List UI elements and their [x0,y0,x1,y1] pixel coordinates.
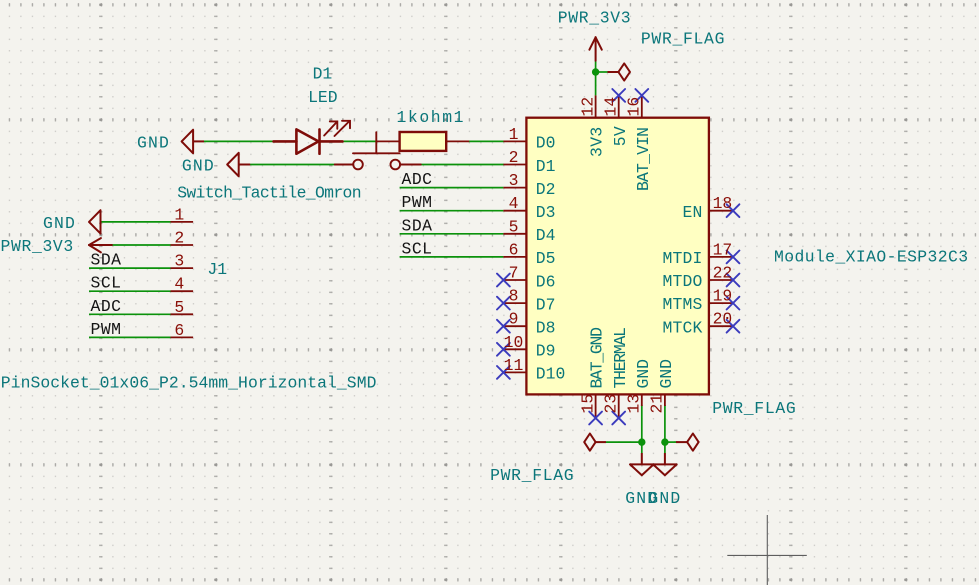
wire row2 GND->SW->pin2 (green segments) [250,164,503,166]
svg-text:3: 3 [509,171,519,190]
module pin names bottom (rotated) [588,328,676,389]
svg-text:BAT_VIN: BAT_VIN [634,128,653,191]
svg-text:LED: LED [308,88,338,107]
module pin names right [662,203,702,337]
wires J1 pins 1-6 (green) [89,222,171,338]
svg-text:SDA: SDA [91,251,122,270]
svg-text:17: 17 [713,240,733,259]
svg-text:1: 1 [509,125,519,144]
wire net PWM to pin4 [400,210,504,212]
svg-text:THERMAL: THERMAL [611,328,630,389]
svg-text:MTCK: MTCK [662,318,702,337]
svg-text:D4: D4 [536,226,556,245]
power flag PWR_FLAG (top) [608,63,631,80]
module pin numbers top (rotated) [578,97,643,117]
power symbol PWR_3V3 (top arrow up) [589,37,601,61]
svg-text:EN: EN [683,203,703,222]
svg-text:20: 20 [713,310,733,329]
svg-text:21: 21 [648,394,667,414]
no-connect X marks module top pins 14,16 [612,89,648,102]
svg-text:SDA: SDA [402,216,433,235]
power symbol PWR_3V3 (J1 pin2, left arrow) [89,238,112,252]
module pin numbers left 1-11 [504,125,524,375]
svg-text:5: 5 [509,217,519,236]
svg-text:PWM: PWM [402,193,433,212]
svg-text:SCL: SCL [402,239,433,258]
ground symbol GND (pin13 bottom) [630,453,654,475]
power flag PWR_FLAG (bottom left) [584,434,606,451]
svg-text:13: 13 [625,394,644,414]
svg-text:D7: D7 [536,295,556,314]
wire net SCL to pin6 [400,256,504,258]
svg-text:23: 23 [601,394,620,414]
no-connect X marks module right pins [727,204,740,332]
junction (GND net, pin13) [638,438,645,445]
svg-text:6: 6 [509,240,519,259]
svg-text:19: 19 [713,287,733,306]
svg-text:3: 3 [174,252,184,271]
svg-text:6: 6 [174,321,184,340]
svg-text:5: 5 [174,298,184,317]
svg-text:MTDI: MTDI [662,249,702,268]
module XIAO-ESP32C3 body [526,118,709,395]
svg-text:D2: D2 [536,180,556,199]
svg-text:PWR_3V3: PWR_3V3 [558,8,631,27]
resistor pins [377,140,470,142]
svg-text:D10: D10 [536,365,566,384]
svg-text:BAT_GND: BAT_GND [588,328,607,389]
svg-text:8: 8 [509,287,519,306]
svg-text:5V: 5V [611,126,630,146]
svg-text:MTMS: MTMS [662,295,702,314]
ground symbol GND (pin21 bottom) [653,453,677,475]
svg-text:J1: J1 [207,260,227,279]
module right pin stubs EN,MTDI,MTDO,MTMS,MTCK [709,211,732,327]
svg-text:D1: D1 [313,65,333,84]
resistor R1 1kohm body [400,132,447,151]
ground symbol (row2 left) [227,153,250,177]
svg-text:1: 1 [174,205,184,224]
svg-text:Module_XIAO-ESP32C3: Module_XIAO-ESP32C3 [774,247,968,266]
junction (3V3 net) [592,68,599,75]
svg-text:2: 2 [509,148,519,167]
svg-text:GND: GND [657,359,676,389]
svg-text:PWR_FLAG: PWR_FLAG [641,29,725,48]
svg-text:MTDO: MTDO [662,272,702,291]
svg-text:GND: GND [648,489,681,508]
svg-text:PWR_3V3: PWR_3V3 [1,237,74,256]
switch SW tactile symbol [335,132,421,169]
svg-text:PWM: PWM [91,320,122,339]
no-connect X marks module bottom pins 15,23 [589,412,625,425]
svg-text:SCL: SCL [91,274,122,293]
module pin numbers bottom (rotated) [578,394,666,414]
svg-text:Switch_Tactile_Omron: Switch_Tactile_Omron [177,184,361,203]
svg-text:22: 22 [713,264,733,283]
module bottom pin stubs 15,23,13,21 [596,394,665,418]
junction (GND net, pin21) [661,438,668,445]
J1 pin numbers 1-6 [174,205,184,340]
svg-text:D5: D5 [536,249,556,268]
svg-text:PinSocket_01x06_P2.54mm_Horizo: PinSocket_01x06_P2.54mm_Horizontal_SMD [1,373,377,392]
svg-text:18: 18 [713,194,733,213]
svg-text:9: 9 [509,310,519,329]
svg-text:4: 4 [509,194,519,213]
svg-text:GND: GND [43,214,76,233]
module left pin stubs 1-11 [503,141,526,372]
svg-text:12: 12 [578,97,597,117]
module pin names left D0-D10 [536,134,566,384]
svg-text:D1: D1 [536,157,556,176]
LED light emission arrows [324,121,350,136]
svg-text:14: 14 [601,97,620,117]
power flag PWR_FLAG (bottom right) [676,434,699,451]
no-connect X marks module left pins 7-11 [497,274,510,379]
ground symbol (J1 pin1) [89,210,101,233]
svg-text:GND: GND [634,359,653,389]
wire net ADC to pin3 [400,187,504,189]
svg-text:10: 10 [504,333,524,352]
svg-text:D6: D6 [536,272,556,291]
svg-text:D9: D9 [536,342,556,361]
ground symbol (row1 left) [182,130,204,154]
svg-text:GND: GND [182,157,215,176]
connector J1 pin stubs [171,222,194,338]
svg-text:7: 7 [509,264,519,283]
svg-text:4: 4 [174,275,184,294]
diode D1 LED symbol [274,129,343,153]
svg-text:ADC: ADC [402,170,433,189]
svg-text:PWR_FLAG: PWR_FLAG [490,466,574,485]
svg-text:GND: GND [137,134,170,153]
svg-text:ADC: ADC [91,297,122,316]
wire net SDA to pin5 [400,233,504,235]
svg-text:16: 16 [625,97,644,117]
svg-text:1kohm1: 1kohm1 [397,108,466,127]
svg-text:D3: D3 [536,203,556,222]
svg-text:11: 11 [504,356,524,375]
wire row1 GND->LED->R1->pin1 (green segments) [204,140,503,142]
cursor crosshair [727,515,807,585]
wire GND bottom verticals + horizontals (green) [606,405,676,453]
svg-text:PWR_FLAG: PWR_FLAG [712,399,796,418]
svg-text:D8: D8 [536,319,556,338]
svg-text:3V3: 3V3 [588,126,607,157]
svg-text:15: 15 [578,394,597,414]
module pin numbers right [713,194,733,329]
wire 3V3 vertical (green) [596,61,608,96]
svg-text:2: 2 [174,229,184,248]
module top pin stubs 12,14,16 [596,95,642,117]
module pin names top (rotated) [588,126,653,191]
svg-text:D0: D0 [536,134,556,153]
